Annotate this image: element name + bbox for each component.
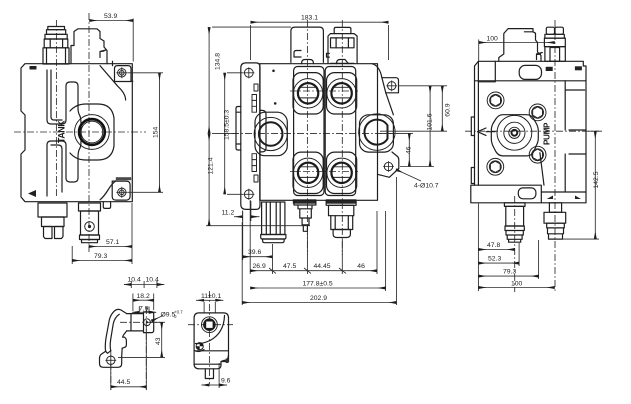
bottom boss dark band: [116, 177, 131, 180]
boss around inlet left: [255, 112, 287, 156]
svg-text:134.8: 134.8: [215, 53, 222, 70]
block split line: [194, 350, 228, 352]
work port A1: [293, 79, 322, 108]
left edge pointer: [478, 128, 496, 135]
bottom block black mark 1: [547, 196, 553, 200]
block outline: [194, 313, 228, 369]
dim 11.2: [222, 201, 260, 221]
dim 101.6: [400, 86, 434, 167]
valve section slab 1: [294, 67, 324, 196]
bracket side tab: [122, 337, 126, 348]
cam curve: [196, 316, 225, 344]
top boss diagonal: [100, 66, 126, 100]
svg-text:79.3: 79.3: [503, 269, 516, 276]
dim 60.9: [380, 86, 451, 131]
dim 183.1: [251, 15, 389, 61]
right edge tick: [226, 359, 229, 364]
dim 121.4: [206, 133, 310, 225]
svg-text:183.1: 183.1: [301, 15, 318, 22]
bottom boss diagonal: [100, 181, 116, 200]
dim 158.5±0.3: [223, 73, 243, 195]
centerline pump stack vertical: [514, 196, 516, 292]
top band line: [475, 80, 587, 82]
centerline pivot axis horizontal: [120, 321, 160, 323]
dim 100 bottom: [478, 280, 554, 287]
dim 39.6: [243, 211, 273, 261]
centerline pivot end vertical: [145, 307, 147, 390]
svg-text:11±0.1: 11±0.1: [201, 293, 221, 300]
bottom relief stack: [544, 203, 566, 239]
dim 7.9: [132, 305, 156, 313]
pump port circles: [497, 115, 532, 150]
work port B2: [327, 158, 356, 187]
work port B1 boss: [293, 152, 323, 193]
dim 79.3: [478, 240, 538, 279]
TANK port circle inner: [81, 121, 103, 143]
top right ear: [382, 78, 399, 93]
cylinder detent circle: [85, 222, 95, 232]
centerline horizontal port axis: [14, 131, 146, 133]
bottom screw boss: [112, 181, 130, 200]
dim 79.3: [72, 246, 132, 264]
body top-right rounded corner: [372, 64, 382, 78]
dim 202.9: [242, 177, 396, 305]
inner second contour: [51, 70, 62, 192]
top-left corner step: [478, 61, 495, 82]
svg-text:10.4: 10.4: [146, 277, 159, 284]
svg-text:9.6: 9.6: [221, 378, 231, 385]
hex screw top-right: [529, 104, 546, 121]
ear-to-boss diagonal: [386, 93, 394, 115]
dim 46 right: [380, 133, 413, 166]
plate screw top: [116, 67, 127, 78]
plate hole bottom: [243, 189, 254, 200]
relief valve stack top: [544, 27, 565, 61]
band black mark 2: [575, 66, 582, 70]
dim 47.8: [478, 204, 514, 292]
main body block: [260, 64, 378, 201]
bottom flange step: [103, 202, 110, 209]
cap hook mark: [537, 53, 543, 60]
dim 142.5: [556, 131, 600, 239]
dim 100 top: [479, 36, 555, 62]
bottom band slot rounded: [518, 188, 536, 199]
hex screw top-left: [487, 92, 504, 109]
dome inner line: [524, 31, 533, 33]
hex screw bottom-right: [529, 146, 546, 163]
lug hole: [107, 356, 115, 364]
svg-text:44.45: 44.45: [314, 263, 331, 270]
bracket plate outline: [100, 309, 127, 367]
svg-text:177.8±0.5: 177.8±0.5: [303, 281, 333, 288]
svg-text:100: 100: [487, 36, 499, 43]
seal retainer rects on plate: [252, 84, 258, 182]
svg-text:18.2: 18.2: [137, 293, 150, 300]
top cap spool 1: [291, 27, 324, 62]
relief valve stack: [43, 27, 69, 65]
stem below block: [205, 369, 213, 379]
dim 57.1: [89, 203, 132, 264]
label 4-Ø10.7: [396, 170, 439, 190]
face bolt dot: [272, 70, 275, 73]
svg-text:26.9: 26.9: [253, 263, 266, 270]
centerline spool 1 vertical: [306, 20, 308, 255]
body diagonal edge: [540, 153, 544, 186]
dim 53.9: [89, 13, 133, 62]
spool top bumps: [302, 60, 349, 64]
work port A2: [327, 79, 356, 108]
bottom right ear: [378, 152, 399, 177]
cap hook mark: [294, 51, 301, 58]
dim 10.4 10.4: [124, 277, 164, 289]
svg-text:TANK: TANK: [57, 120, 67, 143]
svg-text:10.4: 10.4: [128, 277, 141, 284]
label Ø9.5 +0.7/0: [152, 310, 184, 322]
work port B2 boss: [327, 152, 357, 193]
dim 18.2: [133, 293, 154, 311]
svg-text:11.2: 11.2: [222, 210, 235, 217]
bottom detent cylinder: [261, 202, 286, 243]
main body outline: [471, 61, 586, 203]
body top-left black corner mark: [30, 66, 37, 70]
centerline relief stack: [55, 20, 57, 197]
svg-text:47.5: 47.5: [283, 263, 296, 270]
svg-text:4-Ø10.7: 4-Ø10.7: [414, 183, 439, 190]
work port A2 boss: [327, 73, 357, 114]
pump boss rotated square: [491, 115, 538, 156]
left mounting plate: [241, 63, 260, 210]
slab junction dark band 2: [326, 199, 357, 203]
bottom block black mark 2: [575, 196, 581, 200]
svg-text:7.9: 7.9: [139, 305, 149, 312]
centerline horizontal port axis: [465, 130, 603, 132]
svg-text:57.1: 57.1: [106, 239, 119, 246]
hex screw bottom-left: [487, 158, 504, 175]
bottom stem spool 1: [294, 200, 316, 231]
centerline work ports top: [290, 90, 358, 92]
centerline vertical main spool axis: [88, 13, 90, 252]
relief valve on spool 2 cap: [327, 27, 358, 63]
bottom right cylinder: [79, 203, 101, 243]
slab junction dark band 1: [293, 199, 317, 203]
bottom left solenoid block: [38, 203, 67, 239]
plate hole bottom right: [383, 161, 394, 172]
svg-text:154: 154: [153, 126, 160, 138]
boss around outlet right: [360, 115, 394, 152]
centerline vertical: [208, 291, 210, 384]
band black mark 1: [546, 67, 553, 71]
svg-text:46: 46: [357, 263, 365, 270]
valve section slab 2: [325, 67, 356, 196]
dim row 26.9 / 47.5 / 44.45 / 46: [250, 200, 377, 274]
spool square hole: [202, 317, 218, 333]
left inlet boss: [260, 110, 266, 151]
svg-text:79.3: 79.3: [94, 253, 107, 260]
centerline horizontal main: [232, 132, 400, 134]
centerline lug vertical: [110, 350, 112, 390]
bottom relief spool 2: [326, 200, 356, 237]
svg-text:101.6: 101.6: [426, 113, 433, 130]
left edge tab top: [471, 117, 474, 136]
dim 44.5: [111, 326, 147, 390]
bottom band line: [475, 185, 587, 203]
dim 154: [128, 73, 164, 193]
dim 52.3: [478, 243, 519, 266]
block notch bottom right: [221, 355, 229, 362]
svg-text:121.4: 121.4: [208, 157, 215, 174]
top cap with lever clevis: [71, 29, 107, 64]
port boss around TANK circle: [70, 104, 114, 160]
inner spool S-contour: [47, 70, 81, 196]
svg-text:44.5: 44.5: [117, 379, 130, 386]
dim 43: [118, 322, 165, 357]
block lower line: [194, 363, 221, 365]
dim 9.6: [201, 363, 230, 388]
body bottom-left arrow mark: [28, 190, 36, 197]
left edge tab bottom: [471, 168, 474, 184]
inlet port circle left: [254, 117, 287, 150]
inlet flange tab left: [236, 107, 241, 151]
svg-text:202.9: 202.9: [310, 295, 327, 302]
outlet port circle right: [359, 114, 395, 150]
TANK port circle thick ring: [79, 119, 105, 145]
centerline spool 2 vertical: [341, 20, 343, 255]
pivot hole: [144, 319, 151, 326]
centerline work ports bottom: [290, 171, 358, 173]
svg-text:158.5±0.3: 158.5±0.3: [223, 110, 230, 140]
work port B1: [293, 158, 322, 187]
work port A1 boss: [293, 73, 323, 114]
dim 134.8: [209, 27, 291, 133]
svg-text:52.3: 52.3: [488, 256, 501, 263]
centerline relief axis vertical: [554, 20, 556, 292]
right extension plate: [565, 81, 586, 192]
bottom pump stack: [504, 203, 525, 242]
cam curve lower: [196, 350, 205, 352]
plate screw bottom: [116, 187, 127, 198]
svg-text:PUMP: PUMP: [542, 122, 551, 145]
centerline horizontal: [188, 324, 233, 326]
svg-text:46: 46: [405, 146, 412, 154]
plate hole top right: [386, 80, 397, 91]
TANK port circle outer: [75, 115, 110, 150]
svg-text:142.5: 142.5: [593, 171, 600, 188]
cap foot line: [112, 61, 114, 65]
pivot cylinder: [127, 312, 154, 333]
svg-text:53.9: 53.9: [104, 13, 117, 20]
pin circle crossed: [196, 343, 203, 350]
dim 11±0.1: [196, 293, 223, 313]
body inner left vertical: [477, 61, 479, 185]
top screw boss: [115, 66, 133, 82]
svg-text:60.9: 60.9: [444, 103, 451, 116]
main body outline: [21, 64, 132, 202]
plate hole top: [243, 67, 254, 78]
svg-text:43: 43: [155, 337, 162, 345]
svg-text:100: 100: [511, 280, 523, 287]
svg-text:47.8: 47.8: [487, 242, 500, 249]
dim 177.8±0.5: [250, 211, 385, 291]
band slot rounded: [519, 65, 541, 79]
bracket inner curve: [106, 314, 120, 353]
lever hook mark: [100, 50, 106, 58]
top cap dome: [499, 29, 541, 62]
